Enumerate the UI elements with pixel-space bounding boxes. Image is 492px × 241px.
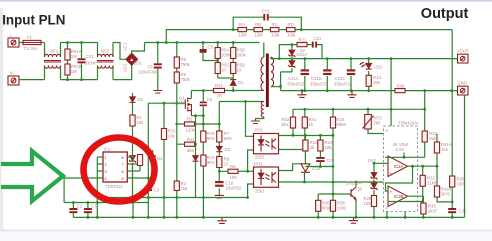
resistor R9 bbox=[217, 157, 230, 173]
ground aux winding bbox=[251, 121, 260, 124]
svg-text:100: 100 bbox=[230, 175, 238, 180]
svg-text:NF1: NF1 bbox=[50, 49, 59, 54]
resistor R23 bbox=[422, 131, 437, 158]
resistor RC bbox=[270, 22, 279, 38]
capacitor C36 bbox=[448, 208, 467, 217]
svg-text:200k: 200k bbox=[221, 53, 231, 58]
zener D3 bbox=[216, 146, 230, 156]
svg-text:69k8: 69k8 bbox=[337, 122, 347, 127]
wire HV rail bbox=[145, 42, 260, 44]
svg-text:NF2: NF2 bbox=[101, 49, 110, 54]
LED bbox=[360, 59, 382, 76]
capacitor C21C bbox=[334, 59, 355, 91]
vref text bbox=[393, 142, 410, 158]
resistor R13 bbox=[366, 75, 381, 91]
transistor Q1 K3569 bbox=[173, 96, 191, 116]
diode D1 bbox=[230, 78, 244, 91]
svg-text:Output: Output bbox=[421, 6, 469, 22]
wire R23 to IC2A input bbox=[385, 156, 425, 158]
wire drain node y=90.5 bbox=[191, 90, 263, 92]
wire RB-RC bbox=[263, 29, 271, 31]
svg-text:1: 1 bbox=[105, 156, 107, 160]
resistor R7 bbox=[217, 102, 233, 147]
wire C2 C7 row bbox=[64, 202, 148, 204]
svg-text:C21A: C21A bbox=[288, 76, 299, 81]
wire fuse to NF1 bbox=[41, 42, 45, 44]
svg-text:C21C: C21C bbox=[335, 76, 346, 81]
svg-text:10M: 10M bbox=[255, 33, 264, 38]
resistor R6b bbox=[228, 164, 248, 180]
svg-text:RA: RA bbox=[239, 22, 245, 27]
op-amp IC2A bbox=[388, 156, 408, 177]
resistor R42 bbox=[282, 109, 296, 135]
capacitor C10 bbox=[215, 171, 242, 193]
svg-text:D1: D1 bbox=[238, 80, 244, 85]
svg-text:10k2: 10k2 bbox=[325, 145, 335, 150]
svg-text:C2: C2 bbox=[77, 204, 83, 209]
svg-text:5k6: 5k6 bbox=[187, 148, 195, 153]
wire IC2A output row bbox=[408, 165, 438, 167]
wire rail y=197.5 bbox=[110, 197, 248, 199]
wire R5C-R5D link bbox=[218, 77, 234, 79]
svg-text:750k: 750k bbox=[181, 77, 191, 82]
svg-text:IC1: IC1 bbox=[104, 147, 111, 152]
svg-text:C21B: C21B bbox=[311, 76, 322, 81]
svg-text:TSM103AI: TSM103AI bbox=[398, 121, 418, 126]
wire row y=124 bbox=[177, 123, 220, 125]
svg-text:3k76: 3k76 bbox=[441, 192, 451, 197]
svg-text:2.6V: 2.6V bbox=[396, 147, 405, 152]
zener D43 bbox=[371, 183, 377, 196]
capacitor CY1 bypass loop bbox=[233, 9, 301, 30]
svg-text:PH2: PH2 bbox=[254, 162, 263, 167]
resistor R24 bbox=[330, 109, 346, 194]
svg-text:10: 10 bbox=[221, 68, 226, 73]
svg-text:D31A: D31A bbox=[297, 52, 308, 57]
resistor R14 bbox=[201, 155, 215, 198]
ground on rail at x=222 bbox=[217, 217, 227, 223]
green arrow bbox=[1, 151, 63, 201]
shunt regulator IC32 bbox=[301, 158, 321, 183]
svg-text:AC1: AC1 bbox=[123, 42, 128, 51]
svg-text:T3.15A: T3.15A bbox=[24, 46, 38, 51]
wire x=424.7 gnd to divider bbox=[424, 91, 426, 131]
wire rail y=217.4 bbox=[73, 216, 464, 218]
wire verticals to rail217 bbox=[133, 198, 204, 218]
ground under C10 bbox=[215, 193, 224, 198]
svg-text:750k: 750k bbox=[181, 62, 191, 67]
svg-text:15k: 15k bbox=[441, 147, 449, 152]
svg-text:100: 100 bbox=[364, 201, 372, 206]
IC1 left pin wires bbox=[64, 157, 103, 203]
wire vertical x=148.3 to C3 bbox=[147, 103, 149, 186]
svg-text:RC: RC bbox=[272, 22, 278, 27]
svg-text:1k8: 1k8 bbox=[181, 186, 189, 191]
svg-text:R2: R2 bbox=[187, 117, 193, 122]
svg-text:10M: 10M bbox=[271, 33, 280, 38]
wire IC2B minus row bbox=[388, 201, 423, 203]
svg-text:10: 10 bbox=[224, 162, 229, 167]
transistor Q3 2N2904 bbox=[346, 181, 363, 218]
resistor R41 bbox=[302, 109, 317, 149]
svg-text:AC2: AC2 bbox=[123, 63, 128, 72]
resistor R17 bbox=[137, 155, 142, 172]
svg-text:2: 2 bbox=[105, 163, 107, 167]
svg-text:C7: C7 bbox=[91, 204, 97, 209]
resistor R33 bbox=[421, 203, 438, 217]
wire Q1 drain stub bbox=[190, 91, 192, 99]
svg-text:+: + bbox=[390, 190, 393, 195]
snubber R21 bbox=[279, 38, 312, 59]
svg-text:+: + bbox=[390, 171, 393, 176]
resistor R5B bbox=[231, 43, 247, 63]
wire gate row y=103.2 bbox=[148, 102, 185, 104]
diode D4b bbox=[193, 156, 199, 198]
wire IC2B out bbox=[408, 196, 424, 203]
diode D2 bbox=[130, 93, 144, 115]
ground on gnd rail x=352 bbox=[347, 91, 356, 98]
junction dots input rails bbox=[66, 41, 69, 44]
resistor R11 bbox=[185, 137, 196, 153]
capacitor C6 bbox=[200, 91, 213, 116]
resistor R2 bbox=[185, 117, 196, 133]
svg-text:N: N bbox=[10, 71, 13, 76]
svg-text:31k6: 31k6 bbox=[427, 181, 437, 186]
svg-text:TD07012: TD07012 bbox=[105, 184, 123, 189]
svg-text:10: 10 bbox=[237, 68, 242, 73]
wire R26 R35 top row to Q3 base bbox=[318, 193, 351, 195]
svg-text:F1: F1 bbox=[27, 35, 33, 40]
svg-text:3: 3 bbox=[105, 170, 107, 174]
svg-text:120k: 120k bbox=[186, 128, 196, 133]
optocoupler PH2 bbox=[254, 162, 279, 194]
svg-text:330nF: 330nF bbox=[85, 61, 98, 66]
resistor R41A bbox=[434, 134, 451, 166]
wire x=148.3 below to rail bbox=[147, 198, 149, 218]
resistor R36 bbox=[450, 176, 467, 208]
zener D31B bbox=[281, 59, 295, 72]
svg-text:RD: RD bbox=[288, 22, 294, 27]
svg-text:RB: RB bbox=[255, 22, 261, 27]
transformer aux winding bbox=[219, 100, 263, 121]
wire vertical x=195.5 bbox=[195, 116, 197, 155]
optocoupler PH1 bbox=[254, 128, 279, 160]
resistor RB bbox=[254, 22, 263, 38]
svg-text:C1: C1 bbox=[148, 64, 154, 69]
svg-text:R21: R21 bbox=[299, 38, 307, 43]
resistor R12 bbox=[214, 83, 225, 99]
resistor column R6 R5 750k bbox=[174, 43, 190, 123]
svg-text:200k: 200k bbox=[237, 53, 247, 58]
resistor R1 bbox=[130, 115, 144, 155]
wire IC2A out to IC2B plus bbox=[386, 166, 413, 191]
svg-text:7k5: 7k5 bbox=[374, 121, 382, 126]
fuse F1 bbox=[23, 35, 41, 51]
svg-text:C5: C5 bbox=[208, 45, 214, 50]
zener below R1 bbox=[130, 156, 136, 198]
resistor R24b bbox=[318, 134, 335, 157]
svg-text:LED: LED bbox=[374, 65, 382, 70]
IC2 dashed box TSM103AI bbox=[384, 121, 419, 212]
capacitor C7 bbox=[84, 203, 97, 218]
resistor R22 bbox=[303, 135, 318, 157]
svg-text:C23: C23 bbox=[327, 158, 335, 163]
capacitor C21 bbox=[312, 36, 322, 59]
capacitor C1 bbox=[138, 43, 162, 91]
transformer secondary winding bbox=[271, 57, 274, 87]
wire PH1 pin wires right bbox=[279, 136, 334, 150]
ground under C1 bbox=[153, 91, 162, 94]
svg-text:15k: 15k bbox=[373, 80, 381, 85]
zener D31A bbox=[289, 43, 307, 57]
svg-text:4: 4 bbox=[386, 207, 388, 211]
wire N rail bbox=[19, 65, 132, 80]
wire secondary bottom bbox=[271, 72, 281, 91]
resistor RD bbox=[287, 22, 296, 38]
resistor R5D bbox=[231, 63, 246, 79]
svg-text:BD1: BD1 bbox=[134, 61, 143, 66]
svg-text:C3: C3 bbox=[154, 188, 160, 193]
svg-text:10M: 10M bbox=[239, 33, 248, 38]
svg-text:7R: 7R bbox=[217, 94, 223, 99]
resistor R18 bbox=[201, 116, 216, 155]
svg-text:2561: 2561 bbox=[255, 189, 265, 194]
capacitor C21A bbox=[287, 59, 309, 91]
wire divider row y=109.3 bbox=[293, 108, 425, 110]
wire x=97.3 down bbox=[96, 203, 98, 218]
capacitor C21B bbox=[310, 59, 332, 91]
svg-text:Input PLN: Input PLN bbox=[2, 13, 65, 28]
IC1 right pin wires bbox=[127, 157, 148, 178]
svg-text:5: 5 bbox=[122, 177, 124, 181]
svg-text:R40: R40 bbox=[397, 84, 405, 89]
zener D42 bbox=[368, 158, 388, 183]
svg-text:C21: C21 bbox=[314, 36, 322, 41]
capacitor C3 bbox=[145, 186, 160, 197]
svg-text:R12: R12 bbox=[215, 83, 223, 88]
op-amp IC2B bbox=[388, 186, 408, 207]
wire x=391 into box bbox=[390, 59, 392, 126]
resistor R29 bbox=[364, 196, 377, 218]
wire row y=144.2 R11 bbox=[177, 124, 196, 144]
svg-text:C36: C36 bbox=[459, 209, 467, 214]
capacitor CX1 bbox=[78, 43, 98, 80]
ground on gnd rail x=302 bbox=[297, 91, 306, 98]
transformer TR1 primary winding bbox=[261, 43, 264, 91]
wire Q1 source row bbox=[191, 114, 203, 117]
resistor R41B bbox=[434, 166, 452, 202]
resistor R5A bbox=[215, 43, 231, 63]
svg-text:120uF/400: 120uF/400 bbox=[138, 70, 159, 75]
svg-text:330uF/25: 330uF/25 bbox=[334, 82, 353, 87]
capacitor C23 bbox=[316, 157, 335, 167]
svg-text:330uF/25: 330uF/25 bbox=[310, 82, 329, 87]
resistor RA bbox=[238, 22, 247, 38]
thermistor NTC bbox=[363, 109, 384, 133]
junction dots HV rail bbox=[156, 41, 159, 44]
wire IC2 box pins to rail bbox=[387, 212, 405, 218]
resistor R35 bbox=[330, 194, 347, 217]
wire snubber riser bbox=[166, 30, 238, 43]
wire RD to right bbox=[295, 29, 452, 31]
svg-text:R6: R6 bbox=[230, 164, 236, 169]
wire C23 to IC32 node bbox=[305, 166, 333, 168]
wire PH2 pin2 long node y=182 bbox=[279, 181, 384, 183]
svg-text:GND: GND bbox=[458, 81, 468, 86]
wire aux to PH1 pin4 bbox=[246, 102, 254, 137]
svg-text:6R8: 6R8 bbox=[224, 136, 232, 141]
capacitor C5 bbox=[200, 43, 220, 62]
svg-text:CX1: CX1 bbox=[86, 54, 95, 59]
svg-text:2N2904: 2N2904 bbox=[346, 181, 362, 186]
wire L to fuse bbox=[19, 42, 23, 44]
svg-text:10uF/50: 10uF/50 bbox=[225, 186, 241, 191]
svg-text:7: 7 bbox=[122, 163, 124, 167]
svg-text:2561: 2561 bbox=[255, 155, 265, 160]
terminal N bbox=[8, 71, 19, 86]
wire GND terminal down bbox=[464, 95, 466, 217]
svg-text:D4: D4 bbox=[157, 156, 163, 161]
svg-text:CY1: CY1 bbox=[262, 9, 271, 14]
resistor R91B bbox=[65, 64, 82, 80]
diode D4 bbox=[150, 150, 164, 171]
bridge rectifier BD1 bbox=[123, 42, 143, 72]
svg-text:10k2: 10k2 bbox=[337, 206, 347, 211]
wire RC-RD bbox=[279, 29, 287, 31]
svg-text:1k37: 1k37 bbox=[428, 209, 438, 214]
svg-text:6: 6 bbox=[122, 170, 124, 174]
resistor R5C bbox=[215, 63, 230, 79]
svg-text:IC2B: IC2B bbox=[394, 194, 404, 199]
wire PH2 pin1 to IC32 top bbox=[279, 164, 302, 171]
choke NF1 bbox=[44, 43, 61, 80]
resistor R15 bbox=[161, 103, 176, 197]
svg-text:D42: D42 bbox=[368, 158, 376, 163]
red highlight circle bbox=[84, 138, 155, 202]
svg-text:IC2A: IC2A bbox=[394, 164, 404, 169]
wire opto left column bbox=[248, 150, 254, 198]
svg-text:D2: D2 bbox=[138, 97, 144, 102]
wire top rail NF1 to NF2 bbox=[61, 42, 98, 44]
svg-text:15k: 15k bbox=[429, 136, 437, 141]
svg-text:R11: R11 bbox=[187, 137, 195, 142]
svg-text:100k: 100k bbox=[457, 182, 467, 187]
svg-text:8: 8 bbox=[386, 129, 388, 133]
terminal L bbox=[8, 33, 19, 48]
svg-text:8: 8 bbox=[122, 156, 124, 160]
svg-text:PH1: PH1 bbox=[255, 128, 264, 133]
terminal GND bbox=[458, 81, 469, 96]
wire L rail into bridge bbox=[113, 43, 126, 60]
svg-text:10k: 10k bbox=[168, 134, 176, 139]
resistor R32 bbox=[420, 166, 437, 201]
svg-text:3R3: 3R3 bbox=[207, 160, 215, 165]
svg-text:10k: 10k bbox=[137, 120, 145, 125]
wire bridge output to HV rail bbox=[132, 43, 145, 54]
svg-text:VOUT: VOUT bbox=[457, 49, 469, 54]
svg-text:1M: 1M bbox=[71, 69, 77, 74]
choke NF2 bbox=[97, 43, 114, 80]
svg-text:10M: 10M bbox=[287, 33, 296, 38]
wire GND rail secondary bbox=[281, 90, 458, 92]
svg-text:Q3: Q3 bbox=[357, 187, 363, 192]
terminal VOUT bbox=[457, 49, 469, 64]
resistor R40 bbox=[395, 84, 405, 93]
wire RA-RB bbox=[247, 29, 255, 31]
svg-text:5k1: 5k1 bbox=[282, 122, 290, 127]
IC1 box bbox=[103, 147, 127, 190]
resistor R26 bbox=[316, 194, 332, 217]
ground under Q3 bbox=[349, 217, 358, 223]
svg-text:330uF/25: 330uF/25 bbox=[287, 82, 306, 87]
resistor R3 bbox=[174, 144, 188, 197]
wire right feedback column x=452.2 bbox=[451, 30, 453, 176]
svg-text:4: 4 bbox=[105, 177, 107, 181]
capacitor C2 bbox=[69, 203, 82, 218]
wire secondary top to VOUT rail bbox=[271, 57, 458, 59]
svg-text:D3: D3 bbox=[225, 147, 231, 152]
resistor R91A bbox=[65, 43, 82, 65]
svg-text:1M: 1M bbox=[71, 54, 77, 59]
svg-text:C6: C6 bbox=[207, 97, 213, 102]
svg-text:6R8: 6R8 bbox=[207, 136, 215, 141]
transformer core bbox=[266, 54, 269, 108]
